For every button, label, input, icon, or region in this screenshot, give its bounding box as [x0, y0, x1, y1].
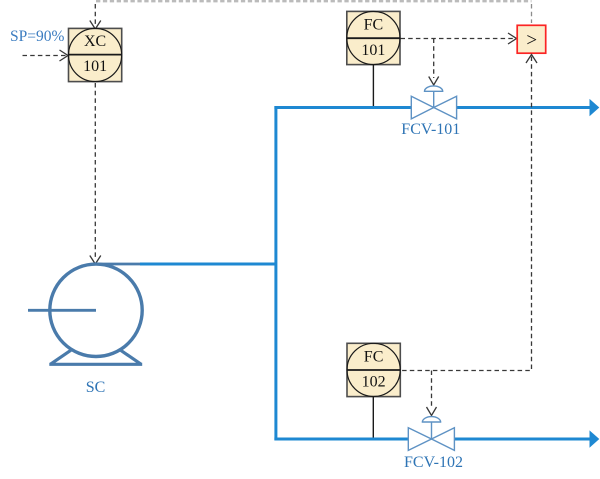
svg-text:FC: FC — [364, 17, 384, 34]
instrument XC-101 — [69, 28, 122, 81]
svg-text:SC: SC — [86, 379, 106, 396]
svg-text:>: > — [526, 30, 537, 51]
instrument FC-102 — [347, 343, 400, 396]
wire: gray dashed drop into selector top — [531, 4, 533, 23]
wire: FC-102 tap to bottom pipe — [372, 397, 374, 438]
wire: setpoint dashed arrow into XC-101 left — [23, 55, 67, 57]
pipe arrow: top outlet — [590, 99, 600, 116]
svg-text:SP=90%: SP=90% — [10, 28, 64, 45]
wire: dashed branch down to FCV-101 actuator — [433, 39, 435, 79]
pipe: vertical header — [274, 106, 277, 440]
wire: dashed FC-101 to selector — [401, 38, 514, 40]
pipe: top branch (to FCV-101) — [274, 106, 411, 109]
pipe: bottom branch (to FCV-102) — [274, 438, 408, 441]
compressor SC — [28, 264, 142, 364]
svg-text:XC: XC — [84, 33, 106, 50]
wire: dashed signal XC-101 down to compressor — [94, 83, 96, 258]
instrument FC-101 — [347, 11, 400, 64]
svg-text:102: 102 — [362, 374, 386, 391]
pipe: bottom branch outlet — [455, 438, 591, 441]
valve FCV-101 — [411, 86, 456, 119]
selector ">" high-select block — [517, 25, 546, 53]
wire: gray dashed signal line (selector output, top run) — [96, 0, 532, 2]
svg-text:101: 101 — [361, 42, 385, 59]
pipe: discharge line to header — [140, 263, 277, 266]
svg-text:FCV-102: FCV-102 — [404, 454, 463, 471]
pipe arrow: bottom outlet — [590, 430, 600, 447]
wire: dashed branch down to FCV-102 actuator — [431, 371, 433, 408]
wire: dashed signal down into XC-101 top — [94, 4, 96, 27]
svg-text:FC: FC — [364, 349, 384, 366]
svg-text:101: 101 — [83, 58, 107, 75]
pipe: top branch outlet — [457, 106, 590, 109]
wire: FC-101 tap to top pipe — [372, 65, 374, 106]
pipe: compressor discharge stub — [96, 263, 142, 266]
svg-text:FCV-101: FCV-101 — [401, 121, 460, 138]
wire: dashed FC-102 up to selector bottom — [401, 57, 532, 371]
valve FCV-102 — [408, 417, 454, 451]
